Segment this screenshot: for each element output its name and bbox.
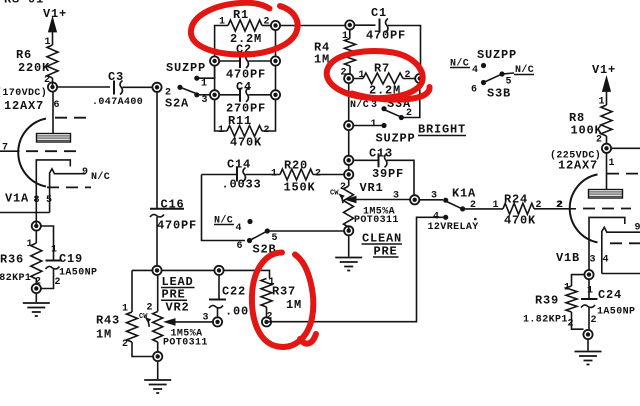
svg-text:1: 1 <box>609 158 615 169</box>
node S2A pole junction <box>152 83 161 92</box>
node C2 row right <box>271 56 280 65</box>
svg-text:SUZPP: SUZPP <box>166 61 206 75</box>
svg-text:1A50NP: 1A50NP <box>597 307 635 318</box>
node C13 row <box>344 156 353 165</box>
wiper arrow of VR2 <box>163 318 176 326</box>
svg-text:1M: 1M <box>286 298 302 312</box>
svg-text:1: 1 <box>51 245 57 256</box>
svg-text:N/C: N/C <box>91 171 110 183</box>
svg-text:470K: 470K <box>230 136 262 150</box>
envelope arc V1A <box>18 119 46 187</box>
svg-text:12AX7: 12AX7 <box>558 159 598 173</box>
node R37 bottom <box>262 317 271 326</box>
wire right rail C2-C4 <box>215 30 276 91</box>
svg-text:39PF: 39PF <box>372 167 404 181</box>
heater lead pin 9 N/C <box>50 169 86 213</box>
ground V1B cathode <box>587 339 589 351</box>
svg-text:9: 9 <box>635 223 640 234</box>
svg-text:C1: C1 <box>371 6 387 20</box>
envelope arc V1B <box>570 174 598 242</box>
cathode of V1A <box>36 160 70 226</box>
svg-text:R1: R1 <box>233 8 249 22</box>
wire R1 left lead down to C2 row <box>215 26 228 57</box>
svg-text:SUZPP: SUZPP <box>477 48 517 62</box>
svg-text:3: 3 <box>203 313 209 324</box>
svg-text:R43: R43 <box>96 314 120 328</box>
svg-text:1A50NP: 1A50NP <box>59 268 97 279</box>
heater lead pin 9 <box>602 227 640 273</box>
ground VR2 <box>157 361 159 379</box>
svg-text:BRIGHT: BRIGHT <box>418 123 466 137</box>
svg-text:CW: CW <box>330 190 339 198</box>
svg-text:2: 2 <box>55 277 61 288</box>
svg-text:R39: R39 <box>535 294 559 308</box>
svg-text:1: 1 <box>564 283 570 294</box>
svg-text:.047A400: .047A400 <box>92 97 143 108</box>
svg-text:R37: R37 <box>272 285 296 299</box>
svg-text:C19: C19 <box>59 252 83 266</box>
svg-text:1M: 1M <box>96 328 112 342</box>
svg-text:RS-01: RS-01 <box>4 0 44 7</box>
red annotation circle around R7 <box>327 51 423 98</box>
svg-text:6: 6 <box>237 241 243 252</box>
svg-text:3: 3 <box>590 255 596 266</box>
rail C13 to R20 row <box>348 165 350 171</box>
red annotation circle around R1 <box>191 3 298 55</box>
svg-text:6: 6 <box>54 100 60 111</box>
svg-text:VR1: VR1 <box>360 181 384 195</box>
pin 5 wire to left edge <box>0 212 50 214</box>
node C1 / R4 top <box>345 20 354 29</box>
node K1A row <box>410 195 419 204</box>
wire K1A contact4 to lead bus <box>268 217 446 321</box>
svg-text:VR2: VR2 <box>166 301 190 315</box>
capacitor C24 <box>588 279 590 299</box>
node R1 pin2 <box>271 21 280 30</box>
svg-text:5: 5 <box>46 195 52 206</box>
svg-text:2: 2 <box>596 135 602 146</box>
node C16 bottom <box>152 266 161 275</box>
svg-text:R24: R24 <box>504 193 528 207</box>
left rail segment <box>348 130 350 156</box>
wire V1+ arrow to R8 <box>606 90 608 105</box>
wire C14 branch down to S2B <box>202 175 246 241</box>
wire left rail below R7 <box>348 83 350 121</box>
svg-text:12AX7: 12AX7 <box>4 99 44 113</box>
svg-text:1: 1 <box>587 286 593 297</box>
svg-text:C24: C24 <box>598 288 622 302</box>
svg-text:C22: C22 <box>222 285 246 299</box>
svg-text:4: 4 <box>603 255 609 266</box>
svg-text:C13: C13 <box>369 147 393 161</box>
svg-text:9: 9 <box>82 167 88 178</box>
svg-text:1: 1 <box>359 70 365 81</box>
svg-text:1.82KP1: 1.82KP1 <box>523 315 568 326</box>
svg-text:R6: R6 <box>16 48 32 62</box>
svg-text:470PF: 470PF <box>157 219 197 233</box>
svg-text:(170VDC): (170VDC) <box>0 87 47 99</box>
cathode of V1B <box>589 217 625 270</box>
svg-text:470PF: 470PF <box>366 29 406 43</box>
node VR2 bottom <box>153 352 162 361</box>
node R20 row <box>344 170 353 179</box>
svg-text:12VRELAY: 12VRELAY <box>428 222 479 233</box>
node C22 top <box>214 266 223 275</box>
node V1B cathode <box>584 270 593 279</box>
svg-text:2: 2 <box>556 200 562 211</box>
wire S2B throw5 to VR1 bottom node <box>267 227 348 231</box>
node (170VDC) plate node <box>48 82 57 91</box>
svg-text:3: 3 <box>393 191 399 202</box>
svg-text:220K: 220K <box>18 61 50 75</box>
svg-text:1: 1 <box>201 79 207 90</box>
node C4 row left <box>210 90 219 99</box>
svg-text:1.82KP1: 1.82KP1 <box>0 273 31 284</box>
svg-text:1: 1 <box>371 119 377 130</box>
svg-text:2: 2 <box>405 70 411 81</box>
wire bus to C22 <box>161 269 214 271</box>
svg-text:N/C: N/C <box>350 99 369 111</box>
wire node down to C16 <box>156 92 158 209</box>
node R8 bottom / V1B plate <box>602 144 611 153</box>
svg-text:1: 1 <box>271 169 277 180</box>
wire R1 right lead <box>262 25 271 27</box>
svg-text:POT0311: POT0311 <box>354 215 399 226</box>
node R39/C24 bottom <box>583 330 592 339</box>
svg-text:R20: R20 <box>284 159 308 173</box>
node C4 row right <box>271 90 280 99</box>
svg-text:1: 1 <box>122 304 128 315</box>
svg-text:2: 2 <box>147 303 153 314</box>
svg-text:V1+: V1+ <box>43 7 67 21</box>
node VR1 bottom <box>344 226 353 235</box>
svg-text:V1B: V1B <box>556 251 580 265</box>
wire plate lead <box>52 92 54 134</box>
red annotation circle around R37 <box>252 253 316 347</box>
resistor R39 <box>566 275 585 330</box>
wire bus to R37 <box>223 270 269 278</box>
svg-text:2: 2 <box>591 315 597 326</box>
node R36 bottom <box>32 284 41 293</box>
svg-text:C4: C4 <box>236 80 252 94</box>
svg-text:4: 4 <box>236 223 242 234</box>
node R36 top (V1A cathode) <box>32 221 41 230</box>
svg-text:3: 3 <box>371 100 377 111</box>
wire plate lead <box>606 153 608 189</box>
plate of V1A <box>37 134 71 143</box>
svg-text:S2A: S2A <box>165 97 189 111</box>
node R7 row right <box>415 74 424 83</box>
svg-text:C14: C14 <box>227 158 251 172</box>
svg-text:.0033: .0033 <box>222 178 262 192</box>
svg-text:2: 2 <box>568 319 574 330</box>
svg-text:6: 6 <box>471 85 477 96</box>
svg-text:K1A: K1A <box>452 187 476 201</box>
node S3A row on rail <box>344 121 353 130</box>
node C2 row left <box>210 56 219 65</box>
ground R36 <box>35 293 37 302</box>
plate of V1B <box>589 190 623 199</box>
wire node to C1 <box>280 25 346 27</box>
svg-text:4: 4 <box>472 65 478 76</box>
svg-text:V1+: V1+ <box>592 63 616 77</box>
svg-text:R36: R36 <box>0 253 24 267</box>
svg-text:470K: 470K <box>504 214 536 228</box>
wire node to C3 <box>57 86 110 88</box>
svg-text:150K: 150K <box>284 181 316 195</box>
wire V1+ arrow to R6 <box>52 30 54 45</box>
svg-text:3: 3 <box>202 95 208 106</box>
svg-text:S3B: S3B <box>487 87 511 101</box>
node C22 bottom <box>213 317 222 326</box>
svg-text:V1A: V1A <box>5 192 29 206</box>
svg-text:POT0311: POT0311 <box>163 338 208 349</box>
wire pin 4 to right edge <box>602 273 640 275</box>
svg-text:8: 8 <box>34 195 40 206</box>
capacitor C19 <box>41 226 54 261</box>
wire R6 to node <box>52 78 54 87</box>
wiper arrow of VR1 <box>344 196 357 204</box>
wire C3 to S2A pole node <box>123 86 153 88</box>
node LEAD bus left corner / resistor R43 top <box>132 269 153 271</box>
ground VR1 <box>348 235 350 257</box>
svg-text:PRE: PRE <box>162 288 186 302</box>
node R7 row left <box>344 74 353 83</box>
svg-text:SUZPP: SUZPP <box>376 132 416 146</box>
